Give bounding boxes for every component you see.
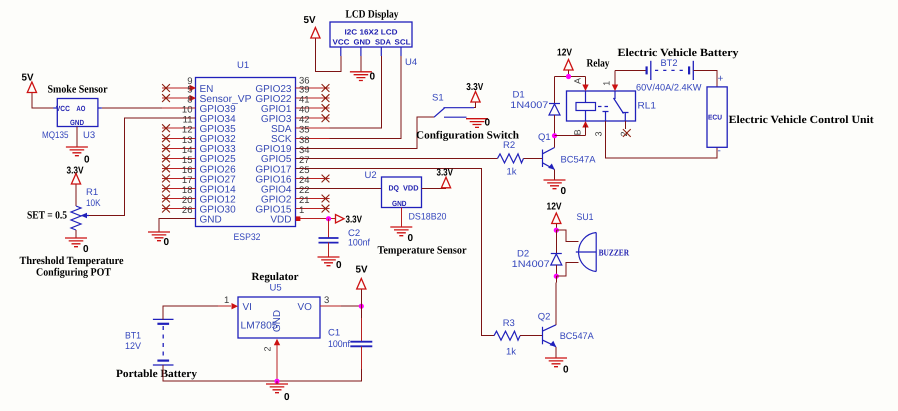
relay pin 3 wire to ECU (606, 121, 717, 158)
svg-text:1: 1 (602, 81, 612, 86)
transistor Q1 (538, 132, 596, 170)
svg-text:SCL: SCL (395, 38, 411, 47)
U1 right pin names (255, 84, 292, 226)
potentiometer R1 (27, 185, 101, 231)
svg-text:AO: AO (76, 104, 85, 113)
svg-text:B: B (572, 129, 582, 135)
svg-text:3.3V: 3.3V (466, 82, 483, 93)
battery BT2 (615, 47, 739, 94)
wire U5 VO to 5V node (320, 295, 361, 306)
svg-text:Q2: Q2 (538, 312, 551, 323)
switch S1 (416, 93, 519, 142)
ground at U1 GND (148, 232, 170, 248)
svg-text:ESP32: ESP32 (234, 232, 261, 243)
bottom rail wire (163, 346, 361, 381)
svg-text:SET = 0.5: SET = 0.5 (27, 210, 67, 222)
wire U3 AO to U1 GPIO39 (98, 107, 162, 109)
svg-text:1k: 1k (507, 167, 517, 178)
wire node to buzzer top terminal (556, 230, 578, 241)
svg-text:BT1: BT1 (125, 331, 141, 342)
temperature sensor U2 (365, 170, 467, 257)
wire U1 GPIO4 to U2 DQ (296, 188, 382, 190)
wire U1 GPIO19 to S1 (296, 117, 435, 148)
svg-text:GND: GND (354, 38, 372, 47)
3.3V power terminal at U2 VDD (422, 168, 454, 189)
wire LCD SCL to U1 SCK (330, 47, 402, 138)
ground at U3 (66, 127, 90, 166)
resistor R2 (498, 140, 524, 178)
wire BT1 to U5 VI (163, 295, 238, 319)
svg-text:U1: U1 (237, 60, 249, 71)
svg-text:GND: GND (70, 118, 84, 127)
transistor Q2 (538, 312, 595, 347)
svg-text:BC547A: BC547A (561, 155, 597, 166)
svg-text:0: 0 (84, 155, 90, 166)
ECU block (707, 74, 874, 157)
3.3V power terminal at U1 VDD (336, 215, 363, 226)
diode D1 (510, 77, 560, 136)
svg-text:0: 0 (561, 186, 567, 197)
wire 12V node (555, 76, 586, 78)
U1 unconnected right pin stubs (296, 88, 330, 209)
svg-text:Relay: Relay (587, 58, 610, 70)
svg-text:0: 0 (485, 118, 491, 129)
battery BT1 (116, 319, 198, 380)
svg-text:3.3V: 3.3V (437, 168, 454, 179)
wire BT2 to ECU (693, 70, 717, 87)
svg-text:D1: D1 (513, 90, 525, 101)
svg-text:DQ: DQ (389, 184, 400, 193)
smoke sensor U3 body (42, 84, 108, 142)
svg-text:U5: U5 (270, 283, 282, 294)
svg-text:GND: GND (200, 215, 222, 226)
resistor R3 (494, 318, 520, 358)
capacitor C1 (328, 306, 372, 350)
wire LCD SDA to U1 SDA (330, 47, 382, 128)
svg-text:Regulator: Regulator (252, 271, 299, 283)
svg-text:DS18B20: DS18B20 (409, 212, 447, 223)
ground at LCD GND (350, 47, 376, 83)
3.3V power terminal at S1 (466, 82, 483, 108)
relay pin A wire (582, 77, 588, 92)
diode D2 (512, 230, 562, 276)
svg-text:MQ135: MQ135 (42, 130, 69, 141)
U1 EN / Sensor_VP input arrows (190, 85, 197, 102)
ground at Q1 emitter (544, 170, 567, 198)
svg-text:26: 26 (182, 205, 193, 216)
junction 12V node (566, 74, 571, 79)
5V power terminal at LCD (304, 15, 321, 38)
svg-text:S1: S1 (432, 93, 444, 104)
svg-text:BUZZER: BUZZER (599, 248, 630, 258)
svg-text:Smoke Sensor: Smoke Sensor (48, 84, 108, 96)
svg-text:VCC: VCC (56, 104, 71, 113)
svg-text:100nf: 100nf (348, 238, 370, 249)
svg-text:GND: GND (392, 199, 407, 208)
junction ground node (274, 379, 279, 384)
svg-text:LCD Display: LCD Display (346, 9, 399, 21)
U5 GND pin wire (263, 339, 281, 382)
svg-text:0: 0 (284, 392, 290, 403)
U1 left pin names (200, 84, 252, 226)
5V power terminal at U5 VO (356, 265, 368, 307)
regulator U5 (238, 271, 320, 338)
ground at C2 (318, 243, 343, 271)
svg-text:0: 0 (83, 244, 89, 255)
svg-text:1k: 1k (506, 347, 516, 358)
svg-text:RL1: RL1 (638, 101, 657, 112)
svg-text:0: 0 (164, 237, 170, 248)
wire 5V to U3 VCC (32, 93, 57, 108)
wire U1 GPIO5 to R2 (296, 157, 498, 159)
ground at regulator (266, 381, 290, 403)
svg-text:10K: 10K (86, 198, 101, 209)
wire R1 wiper to U1 GPIO34 (89, 118, 196, 215)
junction VDD node (326, 216, 331, 221)
svg-text:12V: 12V (557, 48, 572, 59)
ESP32 U1 body (196, 60, 296, 243)
svg-text:3: 3 (324, 295, 329, 306)
svg-text:5V: 5V (356, 265, 368, 276)
svg-text:0: 0 (336, 260, 342, 271)
svg-text:ECU: ECU (708, 115, 722, 122)
svg-text:12V: 12V (125, 341, 142, 352)
svg-text:0: 0 (408, 233, 414, 244)
wire buzzer bottom terminal to node (556, 262, 578, 276)
svg-text:SDA: SDA (375, 38, 392, 47)
12V power terminal at relay (557, 48, 573, 77)
wire Q1 collector to node (554, 136, 556, 148)
svg-text:Temperature Sensor: Temperature Sensor (378, 245, 467, 257)
svg-text:VDD: VDD (270, 215, 291, 226)
svg-text:Electric Vehicle Battery: Electric Vehicle Battery (618, 47, 740, 59)
svg-text:1: 1 (224, 295, 229, 306)
svg-text:5V: 5V (304, 15, 316, 26)
svg-text:I2C 16X2 LCD: I2C 16X2 LCD (345, 28, 399, 37)
svg-text:3.3V: 3.3V (346, 215, 363, 226)
svg-text:2: 2 (263, 346, 273, 351)
ground at S1 (466, 118, 491, 129)
relay pin 2 no-connect (623, 121, 631, 137)
U1 left no-connect X marks (162, 84, 170, 212)
U1 unconnected left pin stubs (162, 88, 196, 219)
svg-text:SU1: SU1 (577, 212, 594, 223)
svg-text:VDD: VDD (403, 184, 419, 193)
svg-text:R1: R1 (86, 187, 98, 198)
svg-text:R2: R2 (503, 140, 515, 151)
svg-text:Configuring POT: Configuring POT (36, 267, 112, 279)
junction Q1 node (552, 133, 586, 138)
ground at U2 GND (390, 208, 413, 245)
wire U1 VDD to 3.3V (300, 218, 336, 220)
svg-text:1: 1 (299, 205, 304, 216)
wire LCD VCC to 5V (315, 39, 340, 72)
buzzer SU1 (576, 212, 630, 272)
svg-text:C1: C1 (328, 328, 340, 339)
junction buzzer bottom (554, 274, 559, 279)
wire R2 to Q1 base (524, 157, 543, 159)
U1 VDD pin square (296, 216, 301, 221)
svg-text:Electric Vehicle Control Unit: Electric Vehicle Control Unit (729, 114, 874, 126)
U1 GND wire to ground (159, 219, 196, 232)
svg-text:U3: U3 (83, 130, 95, 141)
svg-text:-: - (718, 146, 721, 157)
svg-text:Threshold Temperature: Threshold Temperature (20, 255, 124, 267)
relay pin 1 wire (612, 70, 618, 91)
svg-text:Q1: Q1 (538, 132, 551, 143)
ground at Q2 emitter (545, 347, 569, 376)
svg-text:12V: 12V (547, 202, 562, 213)
relay pin B arrow (582, 121, 588, 136)
svg-text:U2: U2 (365, 170, 377, 181)
U1 right no-connect X marks (322, 84, 330, 212)
svg-text:Portable Battery: Portable Battery (116, 368, 198, 380)
svg-text:VCC: VCC (333, 38, 351, 47)
svg-text:1N4007: 1N4007 (510, 100, 548, 111)
svg-text:A: A (572, 78, 582, 84)
svg-text:+: + (718, 74, 724, 85)
3.3V power terminal at R1 (67, 166, 84, 185)
wire Q2 collector (555, 276, 557, 325)
svg-text:100nf: 100nf (328, 339, 350, 350)
junction VO node (359, 304, 364, 309)
wire R3 to Q2 base (520, 335, 543, 337)
wire U1 GPIO17 to R3 (296, 168, 495, 335)
svg-text:60V/40A/2.4KW: 60V/40A/2.4KW (636, 83, 702, 94)
svg-text:3: 3 (594, 131, 604, 136)
junction buzzer top (554, 228, 559, 233)
svg-text:D2: D2 (517, 249, 529, 260)
svg-text:1N4007: 1N4007 (512, 259, 550, 270)
5V power terminal at smoke sensor (22, 73, 37, 93)
svg-text:BT2: BT2 (661, 58, 678, 69)
12V power terminal at buzzer (547, 202, 562, 231)
svg-text:BC547A: BC547A (560, 331, 595, 342)
svg-text:GND: GND (272, 310, 283, 332)
U1 right pin numbers (299, 76, 310, 217)
LCD display U4 body (330, 9, 417, 69)
svg-text:R3: R3 (503, 318, 515, 329)
ground under R1 (65, 230, 89, 255)
svg-text:0: 0 (370, 72, 376, 83)
svg-text:U4: U4 (405, 57, 417, 68)
U1 left pin numbers (182, 76, 193, 216)
svg-text:VI: VI (243, 302, 252, 313)
relay RL1 (567, 58, 657, 137)
capacitor C2 (319, 219, 371, 249)
pot caption (20, 255, 124, 279)
svg-text:VO: VO (298, 302, 313, 313)
svg-text:0: 0 (563, 365, 569, 376)
